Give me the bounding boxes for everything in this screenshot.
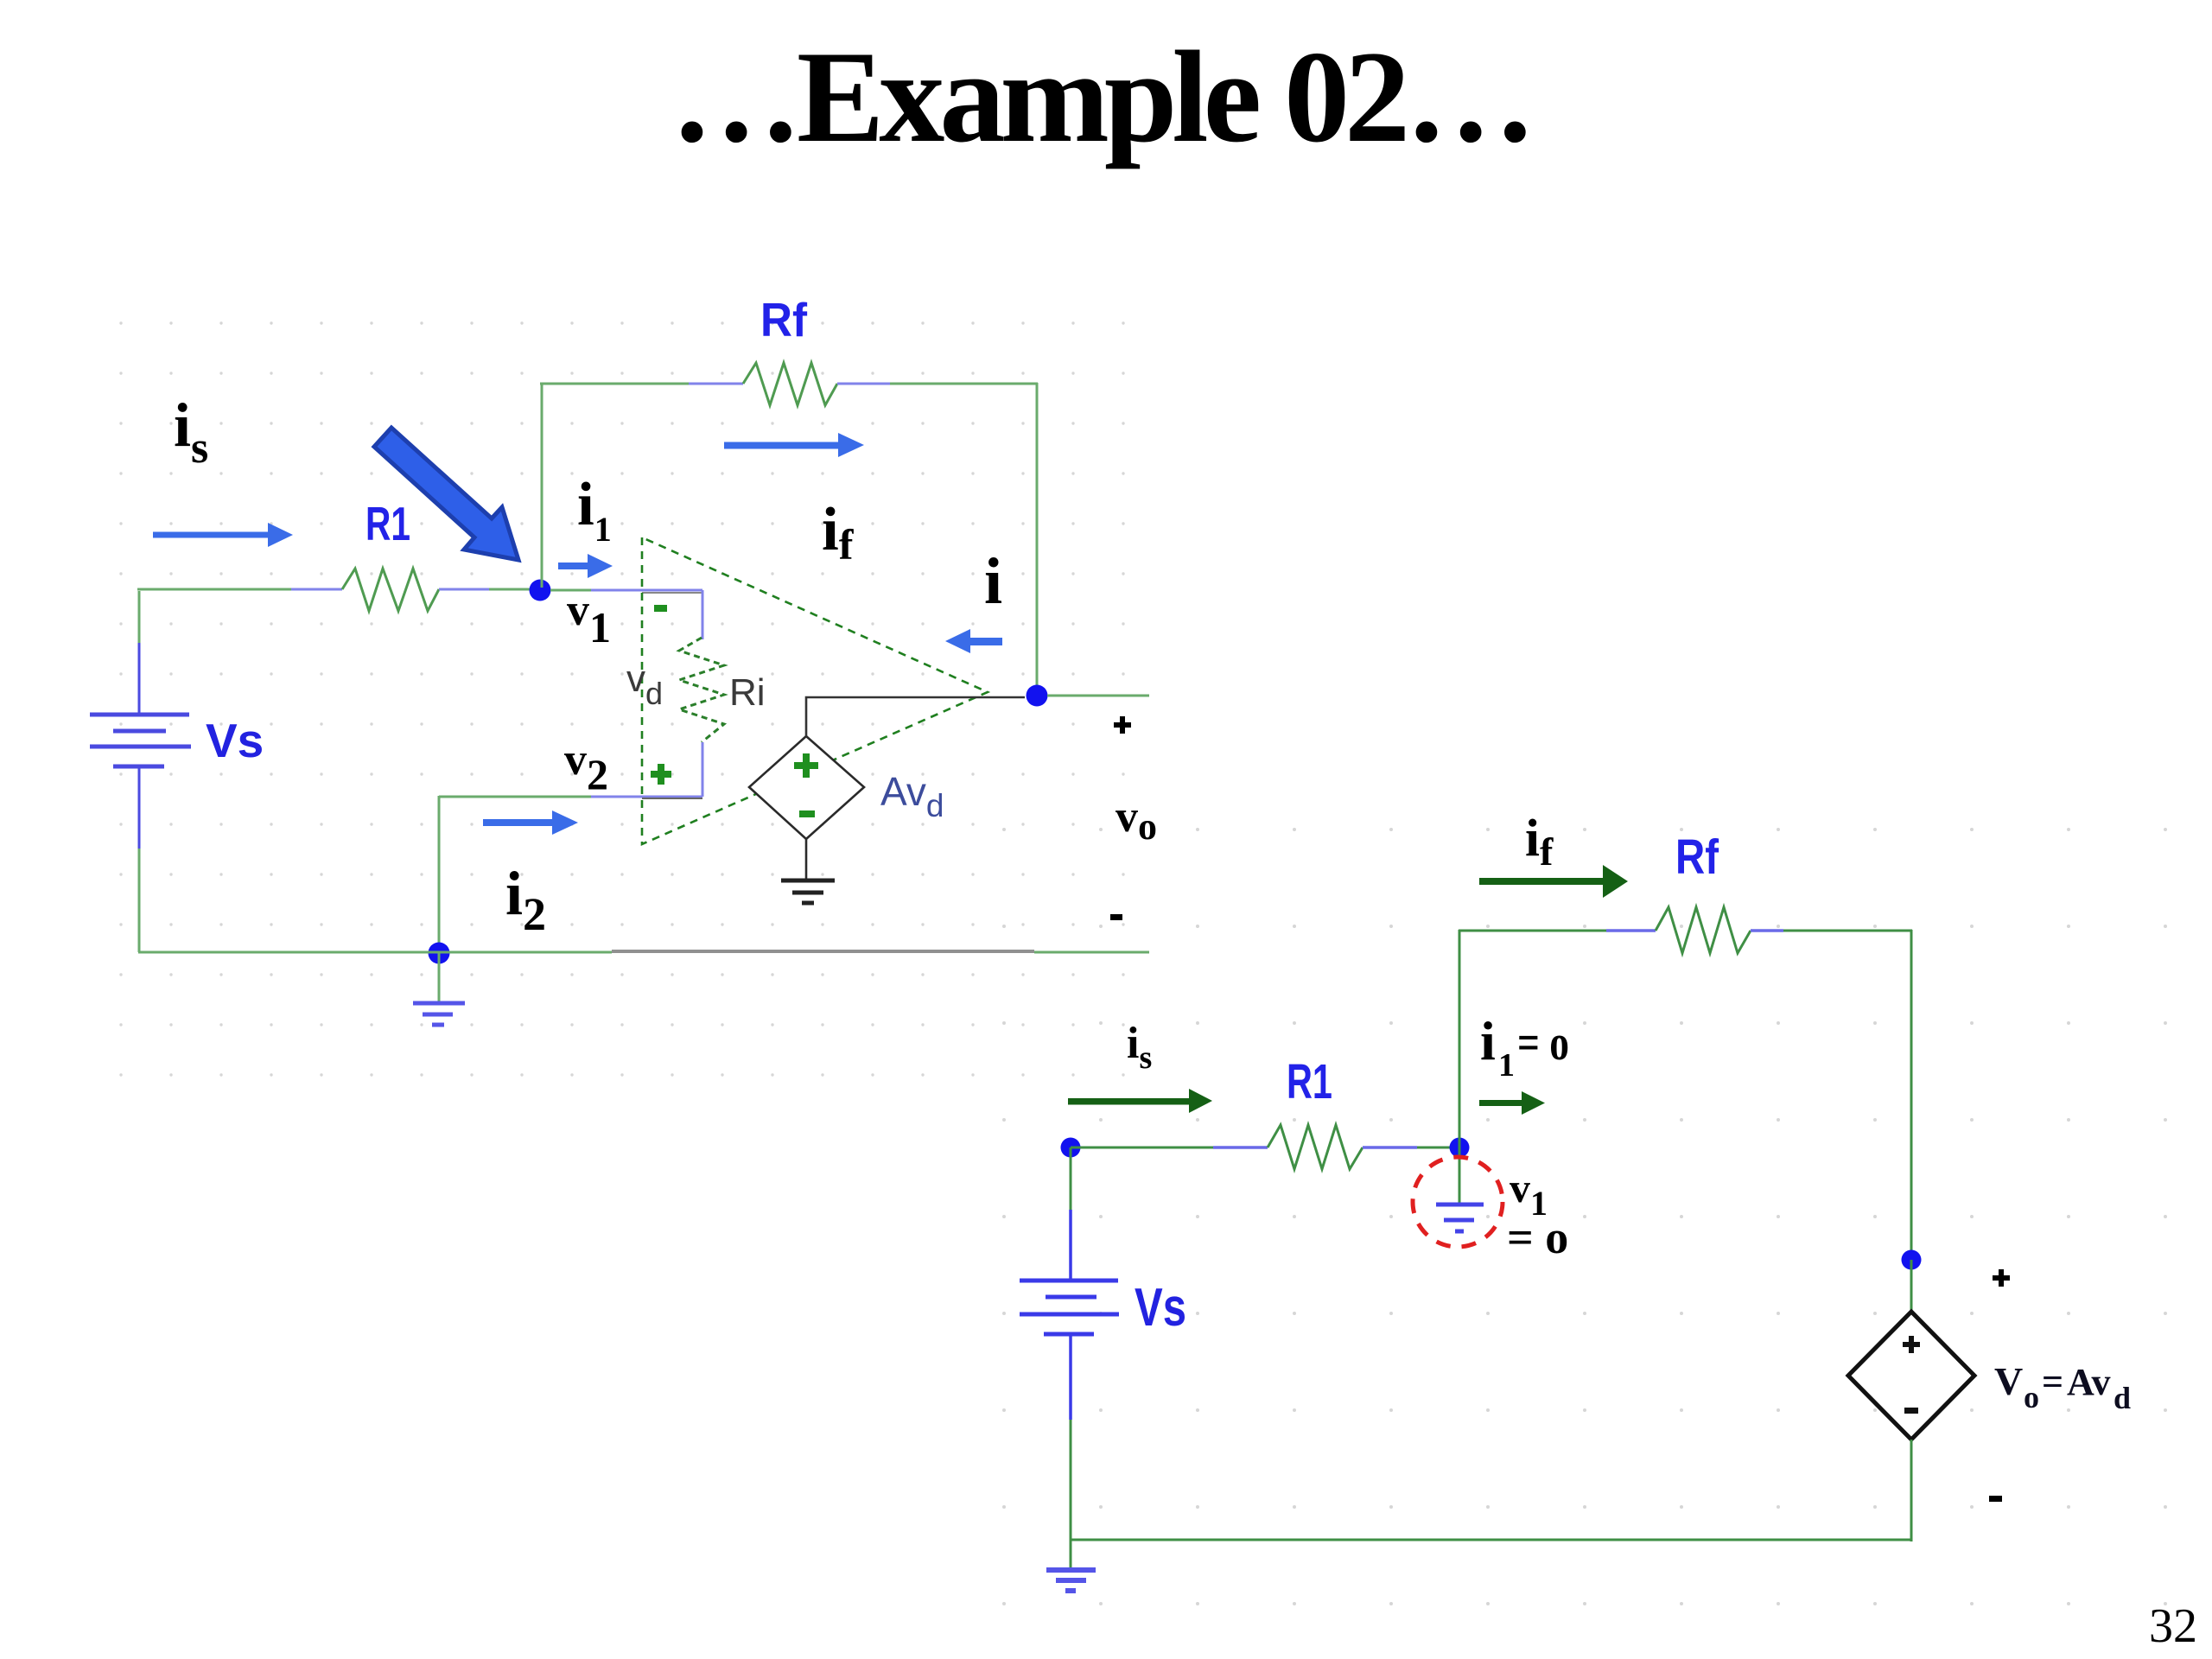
resistor Rf (bottom circuit) [1656, 907, 1751, 953]
svg-text:= o: = o [1517, 1014, 1569, 1071]
resistor R1 (top circuit) [342, 569, 439, 611]
wire: Rfb to right corner [1751, 929, 1912, 932]
svg-text:i: i [984, 545, 1002, 618]
node bottom-left [1061, 1138, 1081, 1158]
wire: feedback top run to Rf [540, 383, 743, 385]
svg-text:Rf: Rf [1675, 829, 1719, 885]
label + (vo port) [1114, 716, 1131, 734]
svg-text:R1: R1 [365, 497, 410, 550]
ground (below bottom node) [413, 953, 465, 1025]
resistor Ri (dashed) [679, 638, 724, 742]
svg-text:if: if [1525, 810, 1554, 874]
wire: v2 vertical down to bottom node [438, 796, 441, 954]
current arrow i1=0 (bottom) [1479, 1091, 1545, 1115]
svg-text:Ri: Ri [729, 671, 766, 714]
svg-text:d: d [2113, 1381, 2131, 1415]
wire: node v1 to op-amp inverting input [550, 590, 702, 593]
dependent source Avd (diamond, top circuit) [749, 736, 864, 839]
wire: bottom return run [1071, 1539, 1912, 1541]
current arrow is (bottom) [1068, 1089, 1212, 1113]
wire: Rf to right vertical drop [837, 383, 1038, 385]
ground (below diamond) [781, 839, 835, 903]
big blue arrow pointer [374, 428, 518, 560]
wire: left vertical from R1 wire to battery top [138, 591, 141, 715]
wire: bottom return (left green) [138, 951, 612, 954]
svg-text:1: 1 [1498, 1047, 1515, 1084]
svg-text:i: i [1480, 1010, 1496, 1071]
wire: right vertical down to output node [1036, 383, 1039, 696]
wire: left node to R1b [1071, 1147, 1268, 1149]
node v1 [530, 580, 551, 601]
svg-text:=: = [2042, 1361, 2063, 1403]
wire: battery bottom to bottom-left corner [138, 766, 141, 952]
wire: left vertical node to battery [1070, 1147, 1072, 1280]
current arrow i (leftward) [945, 629, 1002, 653]
resistor R1 (bottom circuit) [1268, 1125, 1363, 1169]
op-amp plus sign [651, 764, 671, 785]
svg-text:R1: R1 [1287, 1054, 1332, 1109]
wire: bottom return (right green to vo-) [1034, 951, 1149, 954]
label - (vo port) [1110, 914, 1122, 920]
current arrow if (bottom) [1479, 865, 1628, 898]
svg-text:Vs: Vs [1135, 1278, 1186, 1338]
current arrow if [724, 433, 864, 457]
red dashed circle highlight [1413, 1157, 1503, 1247]
wire: output stub [1047, 695, 1149, 697]
wire: v2 horizontal into op-amp [439, 797, 702, 798]
ground v1=0 (inside red circle) [1436, 1147, 1484, 1231]
wire: diamond top to op-amp output (black) [806, 697, 1025, 736]
op-amp U1 (dashed triangle) [642, 537, 988, 844]
wire: inverting lead vertical to Ri top [702, 590, 704, 639]
node junction v1 (bottom circuit) [1450, 1138, 1470, 1158]
wire: bottom return (gray middle) [612, 950, 1034, 953]
label - (right port) [1989, 1496, 2002, 1502]
wire: feedback vertical up from node v1 [541, 384, 543, 588]
current arrow i2 [483, 810, 578, 835]
resistor Rf (top circuit) [743, 363, 837, 405]
svg-text:Vs: Vs [206, 714, 264, 767]
svg-text:V: V [1994, 1359, 2023, 1403]
label Vo = Avd [1994, 1359, 2131, 1415]
node above diamond [1902, 1250, 1922, 1270]
svg-text:Rf: Rf [760, 293, 808, 346]
svg-text:= o: = o [1507, 1211, 1568, 1263]
wire: R1 to node v1 [439, 588, 540, 591]
wire: top horizontal Vs to R1 [137, 588, 342, 591]
wire: diamond bottom to bottom run [1910, 1440, 1913, 1541]
battery Vs (bottom circuit) [1020, 1281, 1119, 1334]
svg-text:32: 32 [2149, 1599, 2197, 1653]
op-amp minus sign [654, 605, 667, 612]
label + (right port) [1993, 1269, 2010, 1287]
wire: junction up to Rf level [1459, 930, 1461, 1147]
wire: right vertical down to node [1910, 930, 1913, 1260]
wire: R1b to junction node [1363, 1146, 1459, 1149]
wire: node to diamond top [1910, 1260, 1913, 1313]
svg-text:o: o [2024, 1380, 2039, 1414]
battery Vs (top circuit) [90, 715, 191, 766]
wire: Ri bottom to v2 lead [702, 742, 704, 797]
wire: battery to bottom-left corner [1069, 1334, 1072, 1541]
current arrow is (top circuit) [153, 523, 293, 547]
current arrow i1 [558, 554, 613, 578]
ground (bottom-left of bottom circuit) [1046, 1540, 1096, 1591]
wire: top run to Rfb [1459, 930, 1656, 932]
svg-text:Av: Av [2067, 1361, 2111, 1403]
dependent source Vo=Avd (diamond, bottom circuit) [1848, 1312, 1974, 1440]
svg-text:…Example 02…: …Example 02… [671, 24, 1536, 169]
node output vo [1027, 685, 1048, 707]
node bottom (ground node) [429, 943, 450, 964]
